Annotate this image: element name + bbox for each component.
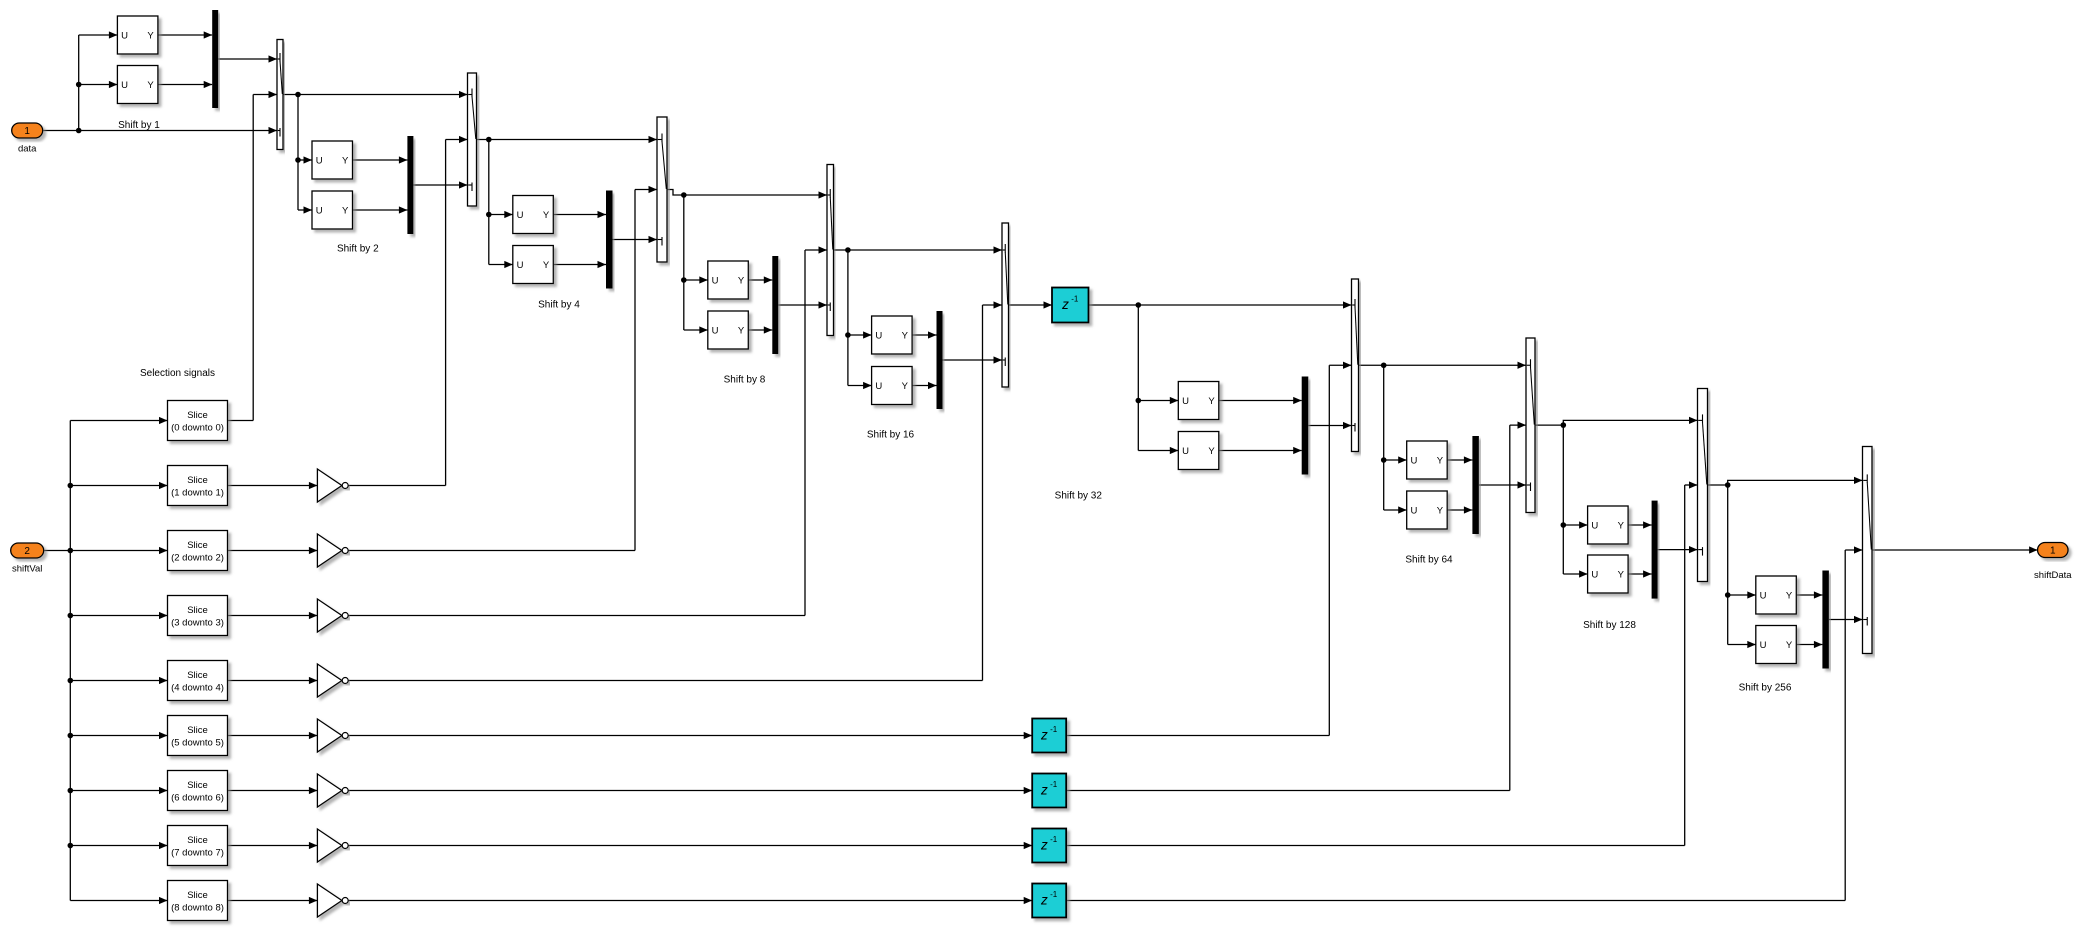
svg-text:U: U	[1760, 640, 1767, 651]
svg-text:Y: Y	[342, 205, 349, 216]
svg-text:Y: Y	[1208, 396, 1215, 407]
svg-text:Y: Y	[1618, 569, 1625, 580]
svg-text:U: U	[121, 80, 128, 91]
svg-text:Slice: Slice	[187, 670, 208, 681]
svg-text:U: U	[517, 210, 524, 221]
svg-text:Y: Y	[1786, 590, 1793, 601]
svg-text:Shift by 256: Shift by 256	[1739, 683, 1792, 694]
svg-text:Slice: Slice	[187, 410, 208, 421]
svg-text:Shift by 16: Shift by 16	[867, 429, 915, 440]
svg-text:Selection signals: Selection signals	[140, 368, 215, 379]
svg-text:Y: Y	[543, 210, 550, 221]
svg-text:U: U	[875, 381, 882, 392]
svg-text:shiftData: shiftData	[2034, 570, 2072, 581]
svg-text:Slice: Slice	[187, 540, 208, 551]
svg-text:Slice: Slice	[187, 835, 208, 846]
svg-text:Shift by 2: Shift by 2	[337, 244, 379, 255]
svg-text:(0 downto 0): (0 downto 0)	[171, 422, 224, 433]
svg-text:Slice: Slice	[187, 475, 208, 486]
svg-text:Y: Y	[1437, 455, 1444, 466]
svg-text:(7 downto 7): (7 downto 7)	[171, 847, 224, 858]
svg-text:U: U	[875, 330, 882, 341]
svg-text:Y: Y	[1786, 640, 1793, 651]
svg-text:U: U	[712, 275, 719, 286]
svg-text:U: U	[1182, 446, 1189, 457]
svg-text:2: 2	[24, 546, 30, 557]
svg-text:-1: -1	[1050, 890, 1058, 899]
svg-text:Y: Y	[342, 155, 349, 166]
svg-text:U: U	[1591, 520, 1598, 531]
svg-text:(4 downto 4): (4 downto 4)	[171, 682, 224, 693]
svg-text:U: U	[712, 325, 719, 336]
svg-text:Shift by 64: Shift by 64	[1405, 554, 1453, 565]
svg-text:z: z	[1040, 728, 1048, 743]
svg-text:z: z	[1040, 893, 1048, 908]
svg-text:(5 downto 5): (5 downto 5)	[171, 737, 224, 748]
svg-text:Shift by 128: Shift by 128	[1583, 620, 1636, 631]
svg-text:data: data	[18, 144, 37, 155]
svg-text:Y: Y	[147, 80, 154, 91]
svg-text:Shift by 4: Shift by 4	[538, 300, 580, 311]
svg-text:Shift by 32: Shift by 32	[1055, 491, 1103, 502]
svg-text:Slice: Slice	[187, 890, 208, 901]
svg-text:U: U	[1410, 505, 1417, 516]
svg-text:U: U	[316, 205, 323, 216]
svg-text:Y: Y	[147, 30, 154, 41]
svg-text:(1 downto 1): (1 downto 1)	[171, 487, 224, 498]
svg-text:U: U	[1760, 590, 1767, 601]
svg-text:-1: -1	[1050, 835, 1058, 844]
svg-text:-1: -1	[1050, 780, 1058, 789]
svg-text:Y: Y	[902, 330, 909, 341]
svg-text:(6 downto 6): (6 downto 6)	[171, 792, 224, 803]
svg-text:1: 1	[24, 126, 30, 137]
svg-text:Slice: Slice	[187, 725, 208, 736]
svg-text:U: U	[1591, 569, 1598, 580]
svg-text:Y: Y	[1208, 446, 1215, 457]
svg-text:U: U	[517, 260, 524, 271]
svg-text:shiftVal: shiftVal	[12, 564, 42, 575]
svg-text:Y: Y	[738, 275, 745, 286]
svg-text:Y: Y	[1618, 520, 1625, 531]
svg-text:z: z	[1040, 783, 1048, 798]
svg-text:z: z	[1061, 297, 1069, 312]
svg-text:(3 downto 3): (3 downto 3)	[171, 617, 224, 628]
svg-text:1: 1	[2050, 546, 2056, 557]
svg-text:Y: Y	[543, 260, 550, 271]
svg-text:Slice: Slice	[187, 780, 208, 791]
svg-text:U: U	[1182, 396, 1189, 407]
svg-text:Y: Y	[1437, 505, 1444, 516]
svg-text:Y: Y	[738, 325, 745, 336]
svg-text:Slice: Slice	[187, 605, 208, 616]
svg-text:-1: -1	[1050, 725, 1058, 734]
svg-text:(8 downto 8): (8 downto 8)	[171, 902, 224, 913]
svg-text:U: U	[121, 30, 128, 41]
svg-text:Y: Y	[902, 381, 909, 392]
svg-text:(2 downto 2): (2 downto 2)	[171, 552, 224, 563]
svg-text:U: U	[1410, 455, 1417, 466]
svg-text:z: z	[1040, 838, 1048, 853]
svg-text:-1: -1	[1071, 295, 1079, 304]
svg-text:Shift by 8: Shift by 8	[724, 374, 766, 385]
svg-text:U: U	[316, 155, 323, 166]
svg-text:Shift by 1: Shift by 1	[118, 120, 160, 131]
